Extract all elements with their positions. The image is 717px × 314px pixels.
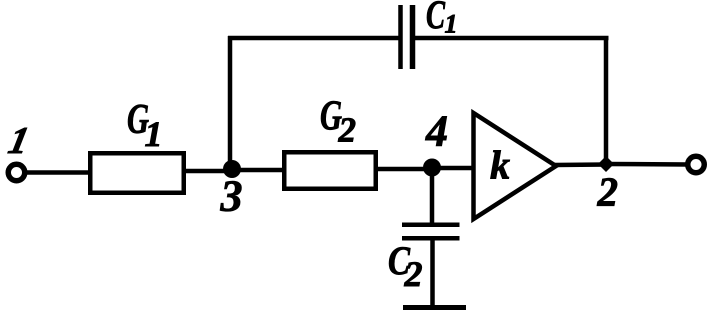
wire node 2 to output: [606, 162, 688, 167]
capacitor C1 right plate: [410, 5, 416, 69]
node 4: [423, 159, 441, 177]
ground: [403, 305, 466, 310]
wire riser from node 3: [228, 36, 233, 171]
resistor G2: [284, 152, 376, 189]
svg-text:2: 2: [404, 254, 423, 294]
wire node 4 down to C2: [430, 167, 435, 224]
wire top left to C1: [228, 36, 399, 41]
resistor G1: [90, 153, 184, 193]
svg-text:1: 1: [445, 10, 458, 39]
svg-text:3: 3: [220, 172, 243, 221]
wire C1 to right corner: [414, 36, 609, 41]
node 3: [223, 160, 241, 178]
svg-text:1: 1: [5, 120, 33, 162]
svg-text:4: 4: [425, 107, 448, 156]
svg-text:2: 2: [338, 111, 357, 150]
op-amp K (amplifier triangle): [474, 113, 557, 219]
wire C2 to ground: [430, 240, 435, 307]
svg-text:C: C: [426, 0, 446, 37]
wire node 3 to G2: [232, 168, 284, 173]
capacitor C2 top plate: [402, 222, 460, 227]
node 2: [598, 156, 614, 172]
input terminal (node 1): [8, 164, 25, 181]
wire G2 to node 4: [378, 167, 434, 172]
capacitor C1 left plate: [398, 5, 403, 69]
svg-text:k: k: [490, 143, 510, 188]
output terminal: [688, 156, 705, 173]
capacitor C2 bottom plate: [402, 236, 460, 241]
svg-text:2: 2: [597, 169, 619, 215]
wire amplifier to node 2: [554, 162, 608, 167]
wire input to G1: [25, 170, 92, 175]
wire node 4 to amplifier: [432, 166, 476, 171]
svg-text:1: 1: [145, 114, 163, 154]
wire drop to node 2: [604, 36, 609, 164]
wire G1 to node 3: [186, 169, 234, 174]
